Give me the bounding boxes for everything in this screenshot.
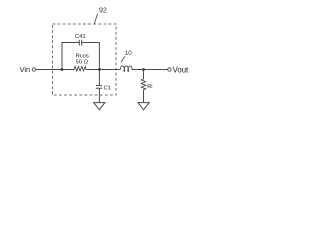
- svg-text:92: 92: [99, 8, 107, 15]
- dashed network box 92: [53, 24, 117, 95]
- node B (right junction): [98, 68, 101, 71]
- wire Vin to resistor: [36, 69, 74, 71]
- node C (output junction): [142, 68, 145, 71]
- svg-text:50 Ω: 50 Ω: [76, 59, 89, 65]
- wire C1 to ground: [98, 89, 100, 103]
- ground (right): [138, 103, 149, 110]
- svg-text:C1: C1: [104, 85, 111, 91]
- Vout terminal: [168, 68, 171, 71]
- svg-text:Rl: Rl: [147, 84, 152, 90]
- wire resistor to coil: [86, 69, 121, 71]
- parallel loop right side: [82, 43, 100, 70]
- resistor Rcos 50ohm: [74, 66, 86, 71]
- leader to coil 10: [121, 56, 125, 62]
- svg-text:10: 10: [125, 50, 132, 57]
- inductor 10: [120, 66, 132, 71]
- capacitor C41: [79, 40, 81, 46]
- ground (left): [94, 103, 105, 110]
- svg-text:Vin: Vin: [20, 65, 31, 74]
- svg-text:Vout: Vout: [173, 65, 189, 74]
- resistor Rl: [141, 79, 145, 90]
- svg-text:C41: C41: [75, 34, 86, 40]
- wire coil to Vout: [132, 69, 168, 71]
- wire Rl to ground: [143, 90, 145, 103]
- parallel loop left side: [62, 43, 79, 70]
- leader to box 92: [94, 14, 97, 24]
- resistor Rl branch wire: [143, 70, 145, 80]
- node A (left junction): [61, 68, 64, 71]
- capacitor C1 branch wire: [98, 70, 100, 86]
- capacitor C1: [96, 86, 102, 89]
